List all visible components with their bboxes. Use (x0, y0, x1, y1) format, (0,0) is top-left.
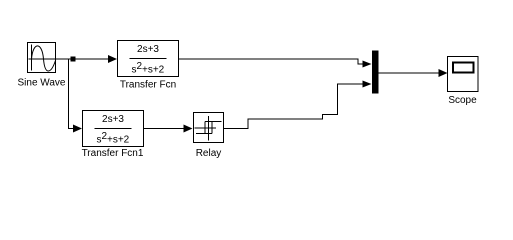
wire Transfer Fcn to Mux top input (179, 59, 364, 64)
relay icon horizontal axis (195, 127, 217, 129)
Mux (372, 51, 379, 94)
block Scope (448, 57, 479, 92)
arrowhead into Transfer Fcn (108, 55, 117, 63)
scope screen (453, 63, 474, 73)
block Sine Wave (28, 43, 56, 73)
wire Transfer Fcn1 to Relay (144, 128, 185, 130)
relay icon upper output level (205, 121, 222, 123)
relay icon left switching line (204, 122, 206, 134)
arrowhead into Scope (439, 69, 448, 77)
wire Mux to Scope (379, 72, 440, 74)
relay icon vertical axis (208, 116, 210, 141)
wire Relay to Mux bottom input (224, 84, 364, 129)
arrowhead into Relay (184, 125, 193, 133)
arrowhead into Transfer Fcn1 (73, 125, 82, 133)
sine icon curve (32, 46, 56, 71)
svg-text:Sine Wave: Sine Wave (18, 78, 66, 89)
block Relay (194, 113, 224, 143)
relay icon lower output level (196, 133, 212, 135)
svg-text:+s+2: +s+2 (142, 65, 165, 76)
block Transfer Fcn (118, 41, 179, 77)
fraction line (130, 58, 167, 60)
wire Sine Wave to Transfer Fcn (56, 58, 110, 60)
wire branch junction to Transfer Fcn1 (69, 59, 75, 129)
svg-text:Transfer Fcn: Transfer Fcn (120, 80, 176, 91)
block Transfer Fcn1 (83, 111, 144, 147)
svg-text:2s+3: 2s+3 (102, 114, 124, 125)
sine icon vertical axis (31, 45, 33, 71)
svg-text:Scope: Scope (448, 95, 477, 106)
fraction line (95, 128, 132, 130)
svg-text:2s+3: 2s+3 (137, 44, 159, 55)
sine icon horizontal axis (29, 58, 56, 60)
svg-text:+s+2: +s+2 (107, 135, 130, 146)
svg-text:Transfer Fcn1: Transfer Fcn1 (82, 148, 144, 159)
arrowhead into Mux top input (363, 61, 372, 68)
arrowhead into Mux bottom input (363, 81, 372, 88)
svg-text:Relay: Relay (196, 148, 222, 159)
junction node (71, 57, 76, 62)
relay icon right switching line (211, 122, 213, 134)
